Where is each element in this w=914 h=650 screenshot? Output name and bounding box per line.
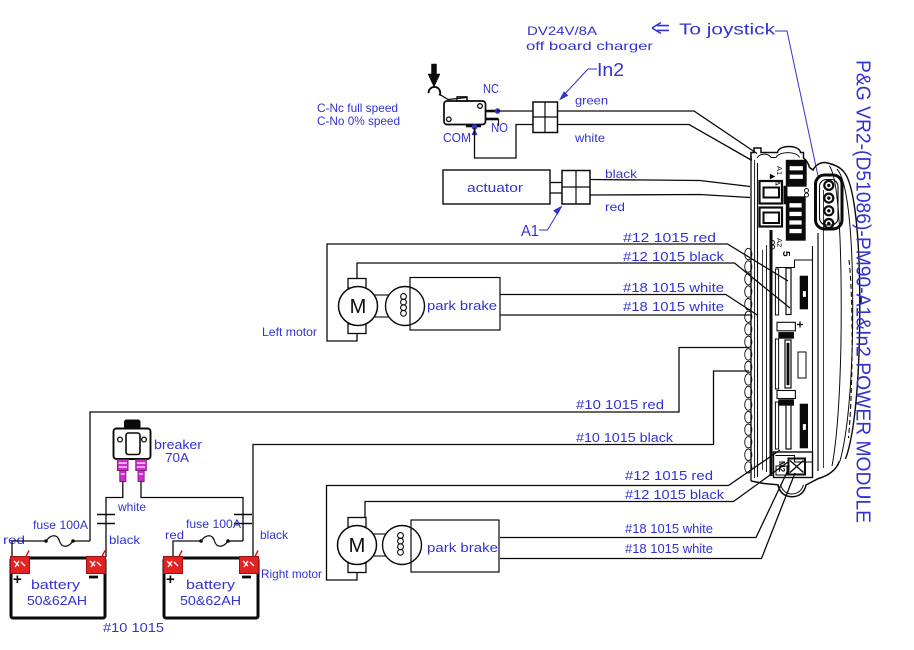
svg-text:red: red	[165, 528, 184, 542]
svg-text:COM: COM	[443, 130, 471, 145]
battery terminal block left	[11, 557, 30, 574]
junction dot NC	[495, 108, 501, 114]
connector pair right	[234, 514, 252, 516]
svg-text:white: white	[574, 131, 605, 145]
battery B2 50&62AH	[164, 558, 258, 618]
svg-text:#18 1015 white: #18 1015 white	[623, 299, 724, 314]
wire right brake white 1	[500, 468, 789, 538]
connector M2 housing	[774, 452, 813, 478]
power module inner panel	[757, 163, 759, 477]
svg-text:black: black	[260, 528, 289, 542]
wire breaker right to fuse2	[141, 482, 243, 542]
leader line In2	[562, 69, 597, 97]
svg-text:#12 1015 red: #12 1015 red	[625, 468, 713, 483]
svg-text:Left motor: Left motor	[262, 325, 317, 339]
svg-text:battery: battery	[31, 577, 81, 592]
svg-text:red: red	[605, 200, 625, 214]
battery minus symbol	[242, 576, 251, 579]
svg-text:#18 1015 white: #18 1015 white	[625, 521, 713, 536]
leader line A1	[539, 209, 560, 230]
junction dot COM with arrow	[472, 124, 478, 130]
battery terminal block left	[164, 557, 183, 574]
crossbar upper	[777, 322, 795, 331]
svg-text:park brake: park brake	[427, 298, 497, 313]
breaker 70A cap	[125, 420, 141, 429]
right park brake solenoid	[373, 533, 389, 535]
actuation arrow	[428, 64, 440, 87]
black bar between blades	[784, 186, 787, 204]
pin NO	[486, 118, 499, 121]
wire NC to In2	[497, 110, 533, 112]
right park brake box	[411, 520, 499, 572]
connector M2 X mark	[789, 459, 806, 475]
power module ribbed edge	[745, 248, 752, 259]
wire breaker left to battery1 neg	[106, 482, 123, 558]
breaker terminal right	[136, 460, 147, 471]
svg-text:A1: A1	[521, 223, 539, 240]
left park brake box	[410, 278, 500, 331]
breaker 70A body	[114, 429, 151, 460]
svg-text:Right motor: Right motor	[261, 567, 322, 581]
wire right motor black	[365, 462, 788, 518]
wire B- black	[253, 371, 749, 557]
wire left brake white 1	[500, 295, 758, 316]
power module PM90 outline	[750, 156, 752, 481]
svg-text:fuse 100A: fuse 100A	[33, 518, 88, 532]
svg-text:actuator: actuator	[467, 180, 524, 195]
svg-text:battery: battery	[186, 577, 236, 592]
tiny marks top	[770, 174, 775, 179]
wire actuator stubs	[550, 182, 562, 184]
svg-text:A1: A1	[775, 166, 784, 175]
svg-text:green: green	[575, 94, 608, 108]
slot assembly A	[775, 269, 778, 315]
panel step below slot C	[776, 456, 813, 463]
svg-text:M: M	[349, 535, 366, 557]
actuator	[443, 170, 550, 204]
svg-text:50&62AH: 50&62AH	[180, 593, 241, 608]
svg-text:#10 1015 red: #10 1015 red	[576, 397, 664, 412]
wire COM loop to In2	[475, 125, 534, 159]
svg-text:M: M	[350, 296, 367, 318]
joystick connector	[816, 175, 843, 229]
battery terminal block right	[87, 557, 106, 574]
extra panel lines	[762, 250, 764, 470]
wire white to module	[558, 125, 753, 161]
pin NC	[486, 110, 498, 113]
pin COM	[466, 125, 481, 128]
wire B+ red	[90, 348, 749, 542]
svg-text:#10 1015 black: #10 1015 black	[576, 430, 674, 445]
wire left motor red	[327, 244, 788, 341]
connector In2 socket lower	[787, 197, 806, 240]
right motor M2	[348, 518, 366, 528]
connector A2 blade bottom	[760, 208, 783, 227]
svg-text:To joystick: To joystick	[679, 22, 776, 39]
svg-text:#12 1015 black: #12 1015 black	[625, 487, 725, 502]
connector A1 blade top	[760, 181, 783, 204]
panel step below label 5	[776, 260, 813, 268]
microswitch S1 body	[444, 101, 486, 125]
svg-text:fuse 100A: fuse 100A	[186, 517, 241, 531]
wire actuator black to module	[590, 180, 750, 187]
connector In2	[533, 102, 558, 133]
svg-text:C-No 0% speed: C-No 0% speed	[317, 114, 400, 128]
svg-text:park brake: park brake	[427, 540, 498, 555]
svg-text:DV24V/8A: DV24V/8A	[527, 24, 597, 38]
svg-text:NC: NC	[483, 81, 499, 96]
svg-text:#18 1015 white: #18 1015 white	[623, 280, 724, 295]
svg-text:5: 5	[780, 251, 791, 257]
microswitch S1 lever	[429, 87, 441, 96]
svg-text:+: +	[166, 571, 175, 588]
wire left brake white 2	[500, 314, 751, 316]
svg-text:M2: M2	[777, 461, 786, 473]
svg-text:black: black	[605, 167, 638, 181]
wire right brake white 2	[500, 473, 795, 559]
connector A1	[562, 171, 590, 205]
leader line to joystick connector	[775, 31, 818, 176]
left park brake solenoid	[374, 294, 390, 296]
svg-text:A2: A2	[775, 238, 784, 247]
battery terminal block right	[240, 557, 259, 574]
svg-text:C-Nc full speed: C-Nc full speed	[317, 101, 398, 115]
breaker terminal left	[118, 460, 129, 471]
wire actuator red to module	[590, 195, 750, 198]
svg-text:#18 1015 white: #18 1015 white	[625, 541, 713, 556]
slot assembly C	[775, 402, 778, 449]
svg-text:#12 1015 red: #12 1015 red	[623, 230, 716, 245]
battery B1 50&62AH	[11, 558, 105, 618]
crossbar lower	[777, 391, 795, 399]
svg-text:red: red	[3, 533, 25, 547]
arrow to joystick	[652, 23, 669, 34]
svg-text:#10 1015: #10 1015	[103, 620, 164, 635]
wire left motor black	[357, 263, 790, 308]
svg-text:50&62AH: 50&62AH	[27, 593, 87, 608]
svg-text:white: white	[117, 500, 146, 514]
battery minus symbol	[89, 576, 98, 579]
left motor M1	[348, 279, 366, 289]
svg-text:P&G VR2-(D51086)-PM90-A1&In2 P: P&G VR2-(D51086)-PM90-A1&In2 POWER MODUL…	[852, 60, 874, 523]
svg-text:off board charger: off board charger	[526, 39, 653, 53]
connector pair left	[97, 514, 115, 516]
power module case right side	[844, 172, 860, 460]
svg-text:In2: In2	[597, 60, 624, 80]
slot assembly B	[775, 339, 778, 389]
svg-text:#12 1015 black: #12 1015 black	[623, 249, 725, 264]
svg-text:black: black	[109, 533, 141, 547]
svg-text:NO: NO	[491, 120, 508, 135]
svg-text:70A: 70A	[165, 450, 189, 465]
wire green to module	[558, 111, 758, 154]
svg-text:+: +	[13, 571, 22, 588]
wire right motor red	[327, 450, 781, 580]
connector In2 socket top	[787, 161, 807, 187]
